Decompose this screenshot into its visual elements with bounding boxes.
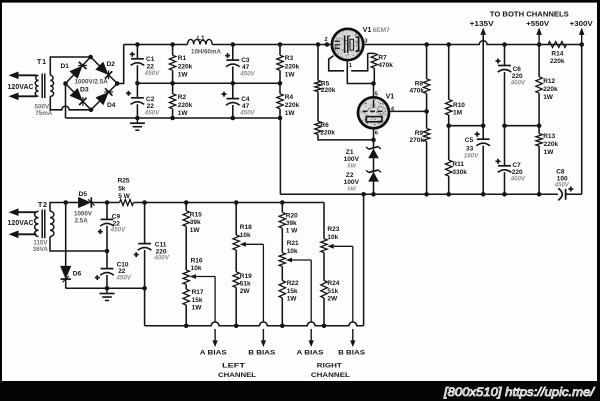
resistor R5 220k xyxy=(315,45,336,95)
wire top rail from V1 pin 3 to +300V corner with hop at +135V riser xyxy=(363,41,581,45)
wire R16 wiper down to A BIAS left output xyxy=(212,277,217,348)
wire bridge DC+ right corner up to +550V top rail xyxy=(117,45,124,84)
wire R18 wiper down to B BIAS left output xyxy=(261,244,266,347)
svg-text:C4: C4 xyxy=(241,96,250,103)
photo frame black border top xyxy=(0,0,600,3)
svg-text:450V: 450V xyxy=(144,110,160,117)
svg-text:75mA: 75mA xyxy=(35,110,53,117)
svg-text:+550V: +550V xyxy=(526,21,549,28)
junction dots on bias rail xyxy=(142,200,284,205)
wire grid pin 1 of upper triode down to junction node xyxy=(347,60,373,83)
capacitor C9 22uF 450V xyxy=(98,203,126,252)
svg-text:R16: R16 xyxy=(191,258,203,265)
svg-text:470k: 470k xyxy=(410,88,425,95)
wire T2 secondary top to D5 node xyxy=(50,203,66,212)
svg-text:2: 2 xyxy=(324,37,327,43)
svg-text:51k: 51k xyxy=(240,280,251,287)
capacitor C2 22uF 450V xyxy=(126,83,160,118)
svg-text:R3: R3 xyxy=(285,55,294,62)
resistor R1 220k 1W xyxy=(169,45,192,84)
capacitor C10 22uF 450V xyxy=(95,251,132,288)
120VAC input arrows for T2 xyxy=(8,208,37,238)
svg-text:R7: R7 xyxy=(378,54,387,61)
wire D5 node down through D6 (crosses secondary-bottom wire) xyxy=(65,203,67,269)
svg-text:R17: R17 xyxy=(192,289,204,296)
wire middle rail (filter cap midpoint) xyxy=(137,82,280,84)
+550V output arrow xyxy=(526,21,549,44)
junction dot R10/R11 midpoint xyxy=(446,123,451,128)
svg-text:120VAC: 120VAC xyxy=(8,84,34,91)
capacitor C5 33uF 160V xyxy=(464,126,490,195)
svg-text:R10: R10 xyxy=(453,102,465,109)
photo frame black bottom bar xyxy=(0,381,600,401)
svg-text:330k: 330k xyxy=(452,169,467,176)
ground symbol at input filter xyxy=(136,118,138,123)
wire bias return bottom rail with hops at wiper taps xyxy=(145,322,364,326)
resistor R2 220k 1W xyxy=(169,83,192,118)
svg-text:100V: 100V xyxy=(344,156,360,163)
wire Z2 to ground rail xyxy=(373,182,375,195)
svg-text:R8: R8 xyxy=(415,81,424,88)
wire bias rail corner down to R23 xyxy=(323,203,325,239)
ground symbol bias supply xyxy=(106,288,108,293)
watermark text [800x510] https://upic.me/ xyxy=(443,385,596,399)
svg-text:C2: C2 xyxy=(146,96,155,103)
svg-text:TO BOTH CHANNELS: TO BOTH CHANNELS xyxy=(490,9,569,18)
svg-text:C5: C5 xyxy=(465,137,474,144)
svg-text:450V: 450V xyxy=(110,227,126,234)
svg-text:10H/60mA: 10H/60mA xyxy=(191,49,221,56)
resistor R9 270k xyxy=(410,129,430,195)
svg-text:220k: 220k xyxy=(285,63,300,70)
capacitor C3 47uF 450V xyxy=(225,45,255,84)
wire C6/C7 midpoint to R12/R13 midpoint xyxy=(505,125,540,127)
svg-text:R4: R4 xyxy=(285,94,294,101)
wire C11 bottom rail down to bias return rail xyxy=(144,288,146,326)
capacitor C8 100uF 450V (in ground rail to +300V riser) xyxy=(554,169,574,201)
svg-text:450V: 450V xyxy=(115,275,131,282)
resistor R25 5k 5W in bias rail xyxy=(118,178,134,206)
transformer T2 xyxy=(35,202,54,238)
resistor R17 15k 1W xyxy=(183,284,204,325)
svg-text:6EM7: 6EM7 xyxy=(373,27,391,34)
svg-text:1W: 1W xyxy=(192,304,203,311)
svg-text:36VA: 36VA xyxy=(33,246,49,253)
wire R10/R11 junction to +135V/C5 node xyxy=(449,125,484,127)
svg-text:A BIAS: A BIAS xyxy=(200,350,228,357)
svg-text:5W: 5W xyxy=(347,187,356,193)
svg-text:400V: 400V xyxy=(153,255,169,262)
capacitor C7 220uF 400V xyxy=(496,126,526,195)
wire ground bottom rail of input filter xyxy=(66,117,281,119)
potentiometer R21 10k xyxy=(279,240,311,266)
label RIGHT CHANNEL xyxy=(311,363,350,380)
svg-text:B BIAS: B BIAS xyxy=(338,350,366,357)
svg-text:1W: 1W xyxy=(287,295,298,302)
+300V output arrow xyxy=(570,21,593,44)
diode D3 (bridge left corner to bottom corner) xyxy=(70,87,89,106)
svg-text:T2: T2 xyxy=(38,202,48,209)
svg-text:1W: 1W xyxy=(178,71,189,78)
svg-text:39k: 39k xyxy=(286,220,297,227)
vacuum tube V1 6EM7 lower triode (pins 5,4,6) xyxy=(358,91,395,136)
wire R18 to R19 xyxy=(235,250,237,272)
junction dot +135V/C5 node xyxy=(481,123,486,128)
wire top B+ rail from bridge to V1 pin 2 (with L1 gap) xyxy=(124,44,332,46)
svg-text:400V: 400V xyxy=(510,176,526,183)
svg-text:220k: 220k xyxy=(178,102,193,109)
svg-text:120VAC: 120VAC xyxy=(8,220,34,227)
svg-text:C3: C3 xyxy=(241,57,250,64)
svg-text:Z1: Z1 xyxy=(346,149,354,156)
svg-text:220k: 220k xyxy=(321,87,336,94)
svg-text:1W: 1W xyxy=(285,110,296,117)
resistor R6 220k xyxy=(315,92,335,137)
resistor R24 51k 2W xyxy=(321,280,340,326)
svg-text:5: 5 xyxy=(375,91,379,97)
svg-text:1000V/2.5A: 1000V/2.5A xyxy=(75,79,109,86)
svg-text:R14: R14 xyxy=(551,51,563,58)
svg-text:B BIAS: B BIAS xyxy=(248,350,276,357)
svg-text:15k: 15k xyxy=(287,288,298,295)
svg-text:R12: R12 xyxy=(543,78,555,85)
resistor R15 39k 1W xyxy=(183,203,202,234)
svg-text:5 W: 5 W xyxy=(118,193,130,200)
transformer T1 xyxy=(35,59,53,98)
svg-text:1 W: 1 W xyxy=(286,228,298,235)
svg-text:450V: 450V xyxy=(144,70,160,77)
wire R21 wiper down to A BIAS right output xyxy=(309,260,314,347)
zener diode Z2 100V 5W xyxy=(344,170,381,193)
wire from filter ground rail down to main ground rail xyxy=(279,118,281,194)
svg-text:Z2: Z2 xyxy=(346,172,354,179)
wire T1 secondary bottom to bridge AC bottom corner (hop over DC- wire) xyxy=(50,96,91,110)
svg-text:A BIAS: A BIAS xyxy=(297,350,325,357)
svg-text:R20: R20 xyxy=(286,212,298,219)
junction dot D5/D6 node xyxy=(63,200,68,205)
junction dots on main ground rail xyxy=(361,192,541,197)
svg-text:R22: R22 xyxy=(287,280,299,287)
svg-text:+300V: +300V xyxy=(570,21,593,28)
bridge rectifier diamond wiring xyxy=(63,55,119,112)
svg-text:D2: D2 xyxy=(107,61,116,68)
svg-text:39k: 39k xyxy=(190,219,201,226)
120VAC input arrows for T1 xyxy=(8,72,37,101)
wire R23 wiper down to B BIAS right output xyxy=(350,246,355,347)
svg-text:220k: 220k xyxy=(550,58,565,65)
svg-text:2W: 2W xyxy=(327,295,338,302)
potentiometer R23 10k xyxy=(321,226,353,252)
svg-text:1M: 1M xyxy=(453,109,462,116)
svg-text:5k: 5k xyxy=(118,186,126,193)
wire D6 to T2 bottom rail xyxy=(65,277,67,289)
vacuum tube V1 6EM7 upper triode (pins 2,3,1) xyxy=(324,27,390,69)
junction dots on top B+ rail xyxy=(135,42,584,47)
junction dot C9/C10 midpoint xyxy=(105,249,110,254)
wire between Z1 and Z2 xyxy=(373,158,375,171)
capacitor C11 220uF 400V xyxy=(134,203,170,289)
svg-text:LEFT: LEFT xyxy=(222,363,245,370)
resistor R3 220k 1W xyxy=(277,45,300,84)
wire heater/cathode U-link under upper triode xyxy=(329,53,368,70)
resistor R12 220k 1W xyxy=(536,45,558,126)
potentiometer R16 10k xyxy=(183,258,215,285)
capacitor C6 220uF 400V xyxy=(496,45,526,126)
svg-text:D4: D4 xyxy=(107,102,116,109)
svg-text:R6: R6 xyxy=(320,122,329,129)
wire V1 pin 4 to R8/R9 junction xyxy=(389,110,427,112)
+135V output arrow xyxy=(470,21,494,126)
svg-text:1W: 1W xyxy=(544,149,555,156)
wire junction to V1 pin 5 xyxy=(373,84,375,98)
svg-text:C1: C1 xyxy=(146,56,155,63)
svg-text:R13: R13 xyxy=(543,133,555,140)
wire R20 to R21 xyxy=(281,228,283,253)
svg-text:3: 3 xyxy=(364,39,368,45)
junction dot pin6/R6 xyxy=(371,138,376,143)
diode D4 (bridge bottom corner to right corner) xyxy=(96,88,116,109)
svg-text:470k: 470k xyxy=(378,62,393,69)
svg-text:450V: 450V xyxy=(554,183,570,189)
junction dot C11 bottom xyxy=(142,286,147,291)
photo frame black border left xyxy=(0,0,2,401)
resistor R13 220k 1W xyxy=(536,126,559,195)
svg-text:100: 100 xyxy=(557,176,568,183)
junction dots on bias return rail xyxy=(184,324,326,329)
svg-text:R23: R23 xyxy=(327,226,339,233)
svg-text:1W: 1W xyxy=(178,110,189,117)
svg-text:R9: R9 xyxy=(415,130,424,137)
svg-text:R18: R18 xyxy=(240,224,252,231)
inductor L1 10H/60mA in top rail xyxy=(188,35,222,56)
svg-text:15k: 15k xyxy=(192,297,203,304)
svg-text:V1: V1 xyxy=(386,94,395,101)
svg-text:10k: 10k xyxy=(191,265,202,272)
svg-text:T1: T1 xyxy=(37,59,47,66)
label LEFT CHANNEL xyxy=(218,363,256,380)
svg-text:51k: 51k xyxy=(327,288,338,295)
resistor R22 15k 1W xyxy=(279,267,299,326)
svg-text:220k: 220k xyxy=(544,141,559,148)
wire T2 section bottom rail xyxy=(66,287,145,289)
svg-text:D6: D6 xyxy=(73,270,82,277)
capacitor C4 47uF 450V xyxy=(222,83,256,118)
svg-text:RIGHT: RIGHT xyxy=(317,363,342,370)
wire +300V riser from C8 to top rail xyxy=(581,45,583,195)
resistor R18 potentiometer 10k xyxy=(233,203,263,251)
svg-text:100V: 100V xyxy=(344,179,360,186)
resistor R19 51k 2W xyxy=(233,272,252,326)
wire R23 to R24 xyxy=(323,253,325,281)
diode D1 (bridge left corner to top corner) xyxy=(61,62,88,79)
svg-text:R19: R19 xyxy=(240,273,252,280)
svg-text:400V: 400V xyxy=(510,79,526,86)
wire R15 to R16 xyxy=(185,226,187,270)
resistor R4 220k 1W xyxy=(277,83,300,118)
svg-text:5W: 5W xyxy=(347,163,356,169)
wire main ground rail xyxy=(280,193,581,195)
svg-text:160V: 160V xyxy=(464,152,479,159)
junction dot C6/C7 midpoint xyxy=(502,123,507,128)
diode D2 (bridge top corner to right corner) xyxy=(95,61,115,79)
svg-text:L1: L1 xyxy=(197,35,205,42)
zener diode Z1 100V 5W xyxy=(344,147,381,170)
resistor R7 470k xyxy=(368,53,394,83)
svg-text:10k: 10k xyxy=(287,248,298,255)
svg-text:220k: 220k xyxy=(320,130,335,137)
resistor R14 220k in top rail xyxy=(548,42,567,66)
svg-text:1W: 1W xyxy=(190,227,201,234)
svg-text:[800x510] https://upic.me/: [800x510] https://upic.me/ xyxy=(443,385,596,399)
resistor R11 330k xyxy=(446,126,468,195)
svg-text:+135V: +135V xyxy=(470,21,494,28)
svg-text:450V: 450V xyxy=(239,110,255,117)
svg-text:220k: 220k xyxy=(178,63,193,70)
junction node grid drive (R7 bottom / pin1 / pin5) xyxy=(371,81,376,86)
wire T1 secondary top to bridge AC top corner xyxy=(50,57,90,75)
label T2 secondary rating 115V 36VA xyxy=(33,239,49,253)
svg-text:CHANNEL: CHANNEL xyxy=(218,372,256,379)
svg-text:270k: 270k xyxy=(410,137,425,144)
svg-text:6: 6 xyxy=(375,131,379,137)
diode D6 xyxy=(60,266,81,282)
wire V1 pin 6 down to zener stack xyxy=(373,128,375,147)
junction dot C10 bottom xyxy=(105,286,110,291)
svg-text:R21: R21 xyxy=(287,240,299,247)
svg-text:2.5A: 2.5A xyxy=(75,218,89,225)
svg-text:2W: 2W xyxy=(240,288,251,295)
svg-text:R24: R24 xyxy=(327,280,339,287)
svg-text:10k: 10k xyxy=(240,232,251,239)
svg-text:R25: R25 xyxy=(118,178,130,185)
resistor R10 1M xyxy=(446,45,466,126)
junction dot R12/R13 midpoint xyxy=(537,123,542,128)
junction dots on middle rail xyxy=(135,81,282,86)
svg-text:220k: 220k xyxy=(285,102,300,109)
resistor R20 39k 1W xyxy=(279,203,298,235)
svg-text:R2: R2 xyxy=(178,94,187,101)
wire R8 bottom to pin4 node xyxy=(426,94,428,129)
svg-text:220k: 220k xyxy=(543,86,558,93)
photo frame black border right xyxy=(597,0,600,401)
junction dot pin4 node xyxy=(424,109,429,114)
svg-text:R15: R15 xyxy=(190,211,202,218)
junction dot C9 top xyxy=(105,200,110,205)
wire T2 secondary bottom to C9/C10 midpoint xyxy=(50,237,107,252)
svg-text:D3: D3 xyxy=(80,87,89,94)
svg-text:1W: 1W xyxy=(543,94,554,101)
svg-text:D5: D5 xyxy=(79,191,88,198)
svg-text:450V: 450V xyxy=(239,71,255,78)
label T1 secondary rating 500V/75mA xyxy=(35,103,53,117)
diode D5 1000V 2.5A xyxy=(66,191,107,225)
svg-text:1: 1 xyxy=(349,63,353,69)
svg-text:R1: R1 xyxy=(178,55,187,62)
capacitor C1 22uF 450V xyxy=(130,45,160,84)
svg-text:D1: D1 xyxy=(61,63,70,70)
svg-text:10k: 10k xyxy=(327,234,338,241)
svg-text:R11: R11 xyxy=(452,161,464,168)
svg-text:V1: V1 xyxy=(363,27,372,34)
wire bias return rail up to main ground rail xyxy=(363,194,365,325)
wire R6 bottom to V1 pin 6 node xyxy=(318,135,374,140)
wire bridge DC- left corner down to ground bottom rail xyxy=(65,84,67,119)
wire bias rail from D5 to R25 and C11 xyxy=(107,202,324,204)
svg-text:CHANNEL: CHANNEL xyxy=(311,372,350,379)
resistor R8 470k xyxy=(410,45,430,95)
junction dots on input filter ground rail xyxy=(135,116,282,121)
svg-text:1W: 1W xyxy=(285,71,296,78)
